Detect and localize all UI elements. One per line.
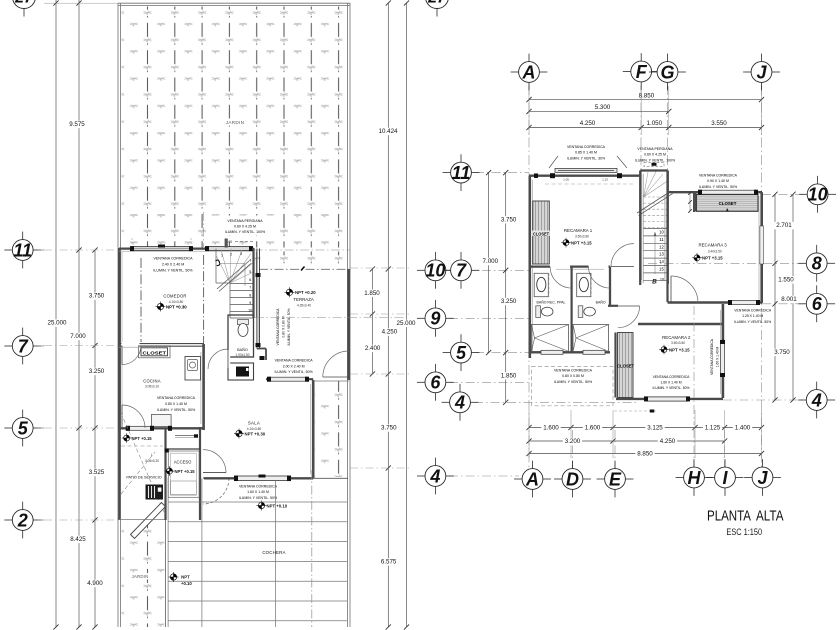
svg-text:3.05x3.20: 3.05x3.20 [145, 459, 159, 463]
svg-text:1.05: 1.05 [563, 178, 569, 182]
svg-text:E: E [609, 469, 622, 489]
svg-text:CLOSET: CLOSET [617, 364, 634, 369]
svg-text:VENTANA CORREDICA: VENTANA CORREDICA [153, 257, 193, 261]
svg-text:10: 10 [248, 309, 252, 313]
svg-text:10: 10 [425, 261, 445, 281]
svg-text:8.850: 8.850 [639, 92, 655, 99]
svg-text:1.23: 1.23 [602, 178, 608, 182]
svg-text:BAÑO REC. PPAL: BAÑO REC. PPAL [537, 300, 566, 305]
svg-text:NPT +0.10: NPT +0.10 [267, 503, 288, 508]
svg-text:14: 14 [659, 259, 664, 264]
svg-text:0.80 X 0.80 M: 0.80 X 0.80 M [562, 374, 584, 378]
svg-text:4: 4 [429, 466, 440, 486]
svg-text:G: G [660, 62, 674, 82]
svg-text:3.750: 3.750 [89, 293, 105, 300]
svg-text:ILUMIN. Y VENTIL. 100%: ILUMIN. Y VENTIL. 100% [225, 230, 265, 234]
svg-text:ILUMIN. Y VENTIL. 50%: ILUMIN. Y VENTIL. 50% [699, 185, 737, 189]
svg-text:NPT +0.15: NPT +0.15 [132, 436, 153, 441]
svg-text:8.850: 8.850 [637, 451, 653, 458]
svg-text:27: 27 [14, 0, 34, 7]
svg-text:9: 9 [430, 309, 440, 329]
svg-text:2.40 X 2.40 M: 2.40 X 2.40 M [162, 262, 184, 266]
svg-text:16: 16 [660, 278, 664, 282]
svg-text:ALTA: ALTA [756, 508, 784, 524]
svg-text:7.000: 7.000 [70, 333, 86, 340]
svg-text:ILUMIN. Y VENTIL. 30%: ILUMIN. Y VENTIL. 30% [567, 156, 605, 160]
svg-text:ILUMIN. Y VENTIL. 50%: ILUMIN. Y VENTIL. 50% [239, 496, 277, 500]
svg-text:3.05x3.10: 3.05x3.10 [145, 385, 159, 389]
svg-text:RECAMARA 2: RECAMARA 2 [662, 335, 691, 340]
svg-text:J: J [756, 62, 767, 82]
svg-text:5.300: 5.300 [595, 104, 611, 111]
svg-text:7.000: 7.000 [483, 258, 499, 265]
svg-text:7: 7 [249, 286, 251, 290]
svg-text:VENTANA CORREDICA: VENTANA CORREDICA [734, 309, 772, 313]
svg-text:4: 4 [249, 259, 251, 263]
svg-text:ACCESO: ACCESO [174, 460, 192, 465]
svg-text:3.750: 3.750 [501, 216, 517, 223]
svg-text:4.10x3.80: 4.10x3.80 [169, 300, 184, 304]
svg-text:8: 8 [812, 254, 822, 274]
svg-text:ILUMIN. Y VENTIL. 50%: ILUMIN. Y VENTIL. 50% [653, 386, 690, 390]
svg-text:1.93x1.50: 1.93x1.50 [235, 353, 249, 357]
svg-text:NPT +0.20: NPT +0.20 [295, 290, 316, 295]
svg-text:10: 10 [659, 230, 664, 235]
svg-text:8.425: 8.425 [70, 536, 86, 543]
svg-text:ILUMIN. Y VENTIL. 50%: ILUMIN. Y VENTIL. 50% [554, 380, 592, 384]
svg-text:ILUMIN. Y VENTIL. 50%: ILUMIN. Y VENTIL. 50% [287, 309, 291, 346]
svg-text:COMEDOR: COMEDOR [163, 294, 186, 299]
svg-text:VENTANA CORREDICA: VENTANA CORREDICA [699, 174, 738, 178]
svg-text:3.125: 3.125 [647, 425, 663, 432]
svg-text:13: 13 [659, 252, 664, 257]
svg-text:1.050: 1.050 [647, 120, 663, 127]
svg-text:10.424: 10.424 [379, 128, 398, 135]
svg-text:CLOSET: CLOSET [719, 201, 737, 206]
svg-text:PLANTA: PLANTA [707, 508, 751, 524]
svg-text:9.575: 9.575 [69, 121, 85, 128]
svg-text:PATIO DE SERVICIO: PATIO DE SERVICIO [126, 476, 161, 480]
svg-text:VENTANA CORREDICA: VENTANA CORREDICA [275, 358, 314, 362]
svg-text:4.250: 4.250 [660, 438, 676, 445]
svg-text:1: 1 [221, 254, 223, 258]
svg-text:A: A [525, 469, 539, 489]
svg-text:NPT +3.15: NPT +3.15 [702, 256, 723, 261]
svg-text:7: 7 [456, 261, 467, 281]
svg-text:1.600: 1.600 [585, 425, 601, 432]
svg-text:VENTANA CORREDICA: VENTANA CORREDICA [157, 396, 196, 400]
svg-text:COCINA: COCINA [143, 379, 161, 384]
svg-text:25.000: 25.000 [397, 320, 416, 327]
svg-text:5: 5 [249, 270, 251, 274]
svg-text:9: 9 [249, 301, 251, 305]
svg-text:1.850: 1.850 [501, 372, 517, 379]
svg-text:CLOSET: CLOSET [143, 350, 167, 355]
svg-text:12: 12 [659, 244, 664, 249]
svg-text:3.200: 3.200 [565, 438, 581, 445]
svg-text:4.250: 4.250 [580, 120, 596, 127]
svg-text:CLOSET: CLOSET [533, 231, 549, 236]
svg-text:H: H [688, 468, 702, 488]
svg-text:3.40x3.50: 3.40x3.50 [708, 249, 722, 253]
svg-text:0.85 X 1.40 M: 0.85 X 1.40 M [575, 151, 597, 155]
svg-text:11: 11 [13, 240, 32, 260]
svg-text:VENTANA PERGIANA: VENTANA PERGIANA [637, 147, 673, 151]
svg-text:11: 11 [659, 237, 664, 242]
svg-text:27: 27 [427, 0, 447, 7]
svg-text:3.50x3.80: 3.50x3.80 [671, 341, 685, 345]
svg-text:ESC 1:150: ESC 1:150 [726, 527, 762, 537]
svg-text:4: 4 [454, 393, 465, 413]
svg-text:3.750: 3.750 [381, 425, 397, 432]
svg-text:6: 6 [430, 373, 441, 393]
svg-text:B: B [652, 279, 657, 286]
svg-text:ILUMIN. Y VENTIL. 50%: ILUMIN. Y VENTIL. 50% [157, 408, 195, 412]
svg-text:TERRAZA: TERRAZA [293, 297, 314, 302]
svg-text:1.125: 1.125 [705, 425, 721, 432]
svg-text:3.750: 3.750 [774, 349, 790, 356]
svg-text:2: 2 [230, 253, 232, 257]
svg-text:VENTANA CORREDICA: VENTANA CORREDICA [554, 369, 593, 373]
svg-text:J: J [757, 468, 768, 488]
svg-text:15: 15 [659, 267, 664, 272]
svg-text:0.80 X 0.80 M: 0.80 X 0.80 M [281, 316, 285, 337]
svg-text:3.550: 3.550 [711, 120, 727, 127]
svg-text:4.10x3.80: 4.10x3.80 [247, 427, 262, 431]
svg-text:0.60 X 4.25 M: 0.60 X 4.25 M [234, 225, 256, 229]
svg-text:A: A [522, 62, 536, 82]
svg-text:0.60 X 4.25 M: 0.60 X 4.25 M [644, 153, 666, 157]
svg-text:RECAMARA 3: RECAMARA 3 [698, 243, 727, 248]
svg-text:2: 2 [17, 510, 28, 530]
svg-text:NPT: NPT [181, 575, 190, 580]
svg-text:JARDIN: JARDIN [226, 120, 244, 125]
svg-text:0.80 X 1.40 M: 0.80 X 1.40 M [165, 402, 187, 406]
svg-text:JARDIN: JARDIN [131, 574, 148, 579]
svg-text:3.525: 3.525 [89, 469, 105, 476]
svg-text:4: 4 [811, 390, 822, 410]
svg-text:6.575: 6.575 [381, 559, 397, 566]
svg-text:4.250: 4.250 [382, 329, 398, 336]
svg-text:ILUMIN. Y VENTIL. 100%: ILUMIN. Y VENTIL. 100% [635, 158, 675, 162]
svg-text:VENTANA CORREDICA: VENTANA CORREDICA [567, 145, 606, 149]
svg-text:25.000: 25.000 [48, 320, 67, 327]
svg-text:NPT +0.30: NPT +0.30 [166, 304, 187, 309]
svg-text:1.400: 1.400 [735, 425, 751, 432]
svg-text:2.00 X 2.40 M: 2.00 X 2.40 M [283, 364, 305, 368]
svg-text:4.35x3.40: 4.35x3.40 [297, 303, 311, 307]
svg-text:5: 5 [18, 418, 29, 438]
svg-text:NPT +3.15: NPT +3.15 [571, 241, 592, 246]
svg-text:ILUMIN. Y VENTIL. 50%: ILUMIN. Y VENTIL. 50% [734, 320, 771, 324]
svg-text:11: 11 [452, 163, 471, 183]
svg-text:3.250: 3.250 [89, 368, 105, 375]
svg-text:RECAMARA 1: RECAMARA 1 [564, 228, 593, 233]
svg-text:1.60 X 1.40 M: 1.60 X 1.40 M [715, 346, 719, 367]
svg-text:+0.10: +0.10 [181, 581, 192, 586]
svg-text:8.001: 8.001 [781, 296, 797, 303]
svg-text:8: 8 [249, 294, 251, 298]
svg-text:6: 6 [249, 278, 251, 282]
svg-text:NPT +3.15: NPT +3.15 [669, 347, 690, 352]
svg-text:3.250: 3.250 [501, 298, 517, 305]
svg-text:ILUMIN. Y VENTIL. 50%: ILUMIN. Y VENTIL. 50% [153, 268, 193, 272]
svg-text:1.600: 1.600 [543, 425, 559, 432]
svg-text:F: F [636, 62, 648, 82]
svg-text:7: 7 [18, 336, 29, 356]
svg-text:VENTANA CORREDICA: VENTANA CORREDICA [710, 338, 714, 375]
svg-text:SALA: SALA [248, 421, 260, 426]
svg-text:1.25 X 1.40 M: 1.25 X 1.40 M [742, 314, 763, 318]
svg-text:VENTANA CORREDICA: VENTANA CORREDICA [276, 308, 280, 346]
svg-text:1.850: 1.850 [364, 290, 380, 297]
svg-text:0.90 X 1.40 M: 0.90 X 1.40 M [707, 179, 729, 183]
svg-text:2.400: 2.400 [365, 345, 381, 352]
svg-text:NPT +0.15: NPT +0.15 [175, 469, 196, 474]
svg-text:NPT +0.30: NPT +0.30 [245, 431, 266, 436]
svg-text:BAÑO: BAÑO [596, 300, 606, 305]
svg-text:6: 6 [812, 294, 823, 314]
svg-text:4.900: 4.900 [87, 580, 103, 587]
svg-text:VENTANA PERGIANA: VENTANA PERGIANA [227, 219, 263, 223]
svg-text:3: 3 [240, 252, 242, 256]
svg-text:ILUMIN. Y VENTIL. 50%: ILUMIN. Y VENTIL. 50% [274, 370, 312, 374]
svg-text:1.550: 1.550 [778, 277, 794, 284]
svg-text:5: 5 [456, 343, 467, 363]
svg-text:COCHERA: COCHERA [262, 550, 285, 555]
svg-text:1.60 X 1.40 M: 1.60 X 1.40 M [247, 490, 269, 494]
svg-text:VENTANA CORREDICA: VENTANA CORREDICA [239, 484, 278, 488]
svg-text:D: D [566, 469, 579, 489]
svg-text:3.50x3.80: 3.50x3.80 [575, 234, 589, 238]
svg-text:2.701: 2.701 [776, 222, 792, 229]
svg-text:1.60 X 1.40 M: 1.60 X 1.40 M [660, 381, 681, 385]
svg-text:BAÑO: BAÑO [237, 347, 248, 352]
svg-text:VENTANA CORREDICA: VENTANA CORREDICA [653, 375, 691, 379]
svg-text:10: 10 [808, 185, 828, 205]
